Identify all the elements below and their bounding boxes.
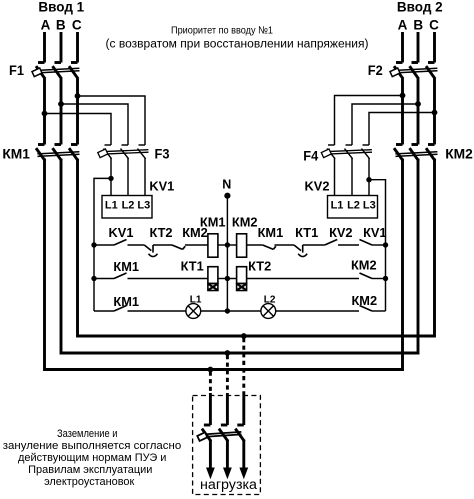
svg-text:КМ1: КМ1 — [2, 146, 30, 161]
svg-text:KV2: KV2 — [305, 179, 330, 194]
svg-text:КМ2: КМ2 — [351, 258, 377, 273]
svg-text:L3: L3 — [137, 199, 150, 211]
svg-text:КМ2: КМ2 — [352, 293, 378, 308]
svg-text:Ввод 1: Ввод 1 — [38, 0, 84, 15]
svg-text:L3: L3 — [363, 199, 376, 211]
svg-text:Ввод 2: Ввод 2 — [397, 0, 443, 15]
svg-text:L2: L2 — [122, 199, 135, 211]
svg-text:КМ1: КМ1 — [200, 214, 226, 229]
svg-text:действующим нормам ПУЭ и: действующим нормам ПУЭ и — [18, 452, 166, 464]
svg-text:КТ2: КТ2 — [149, 225, 172, 240]
svg-text:KV1: KV1 — [109, 225, 134, 240]
svg-text:L1: L1 — [331, 199, 344, 211]
svg-text:С: С — [72, 17, 82, 32]
svg-text:КV1: КV1 — [363, 225, 386, 240]
svg-text:L1: L1 — [105, 199, 118, 211]
svg-text:В: В — [56, 17, 66, 32]
svg-text:КМ1: КМ1 — [258, 225, 284, 240]
svg-text:F2: F2 — [368, 63, 383, 78]
svg-text:КТ1: КТ1 — [295, 225, 318, 240]
svg-text:(с возвратом при восстановлени: (с возвратом при восстановлении напряжен… — [106, 39, 369, 51]
svg-text:Приоритет по вводу №1: Приоритет по вводу №1 — [171, 25, 273, 37]
svg-text:зануление выполняется согласно: зануление выполняется согласно — [3, 440, 181, 452]
svg-text:В: В — [413, 17, 423, 32]
svg-text:L2: L2 — [347, 199, 360, 211]
svg-text:N: N — [222, 178, 231, 192]
svg-text:L1: L1 — [190, 295, 202, 306]
svg-text:F1: F1 — [9, 63, 24, 78]
svg-text:С: С — [429, 17, 439, 32]
svg-text:КТ2: КТ2 — [248, 259, 271, 274]
svg-text:КТ1: КТ1 — [181, 259, 204, 274]
svg-text:КМ1: КМ1 — [113, 294, 139, 309]
svg-text:F3: F3 — [155, 147, 170, 162]
svg-text:электроустановок: электроустановок — [44, 476, 134, 488]
svg-text:КМ2: КМ2 — [445, 146, 473, 161]
svg-text:А: А — [41, 17, 51, 32]
svg-text:KV1: KV1 — [149, 179, 174, 194]
svg-text:Правилам эксплуатации: Правилам эксплуатации — [28, 464, 152, 476]
svg-text:нагрузка: нагрузка — [200, 477, 258, 492]
svg-text:КМ2: КМ2 — [232, 214, 258, 229]
svg-text:Заземление и: Заземление и — [57, 428, 118, 440]
svg-text:КМ1: КМ1 — [113, 259, 139, 274]
svg-text:А: А — [398, 17, 408, 32]
svg-text:КV2: КV2 — [329, 225, 352, 240]
svg-text:F4: F4 — [303, 149, 318, 164]
svg-text:L2: L2 — [264, 295, 276, 306]
